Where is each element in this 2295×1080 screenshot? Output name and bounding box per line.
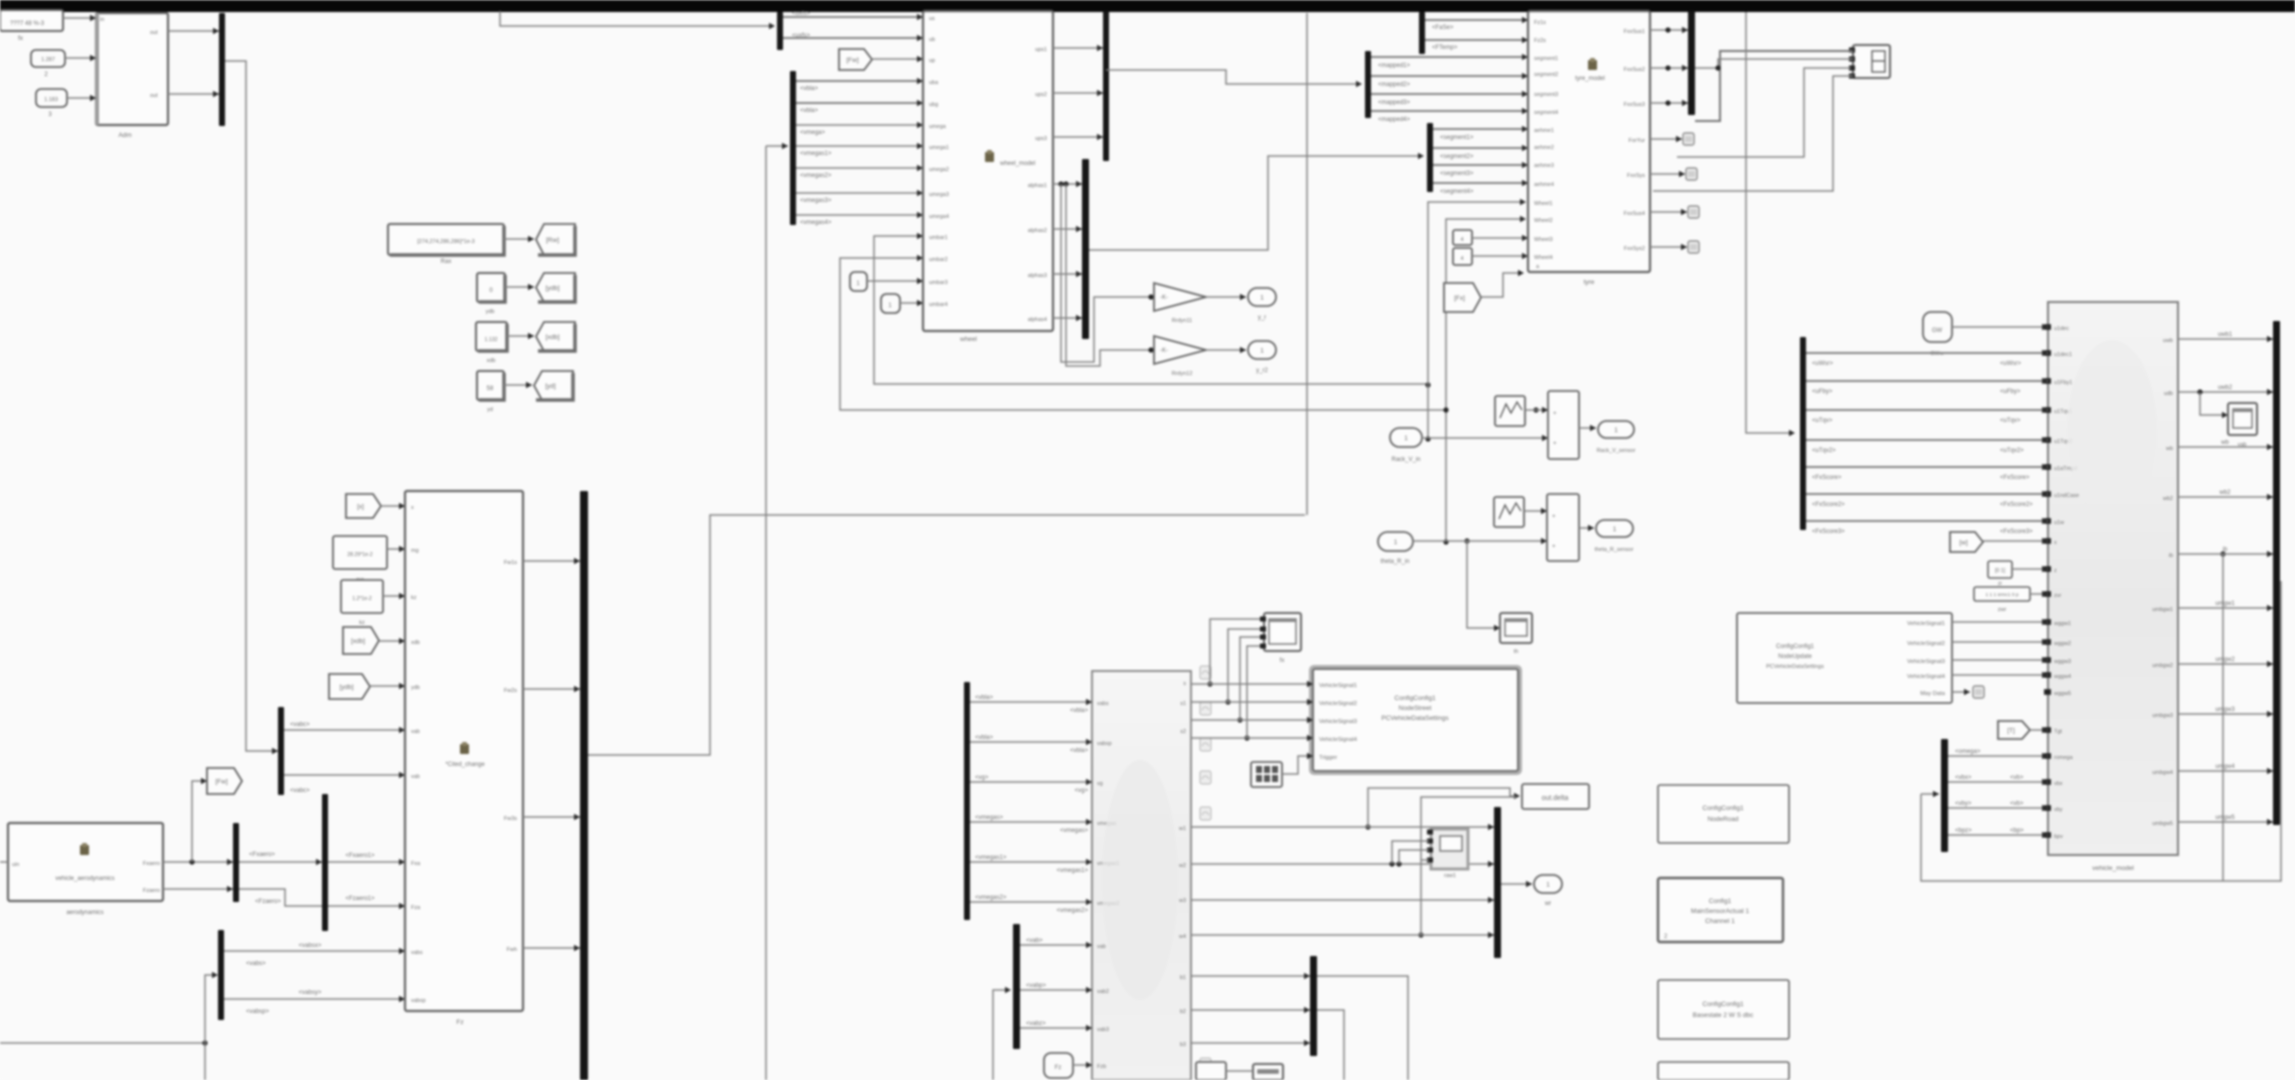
svg-text:umbgw1: umbgw1: [2152, 607, 2173, 613]
svg-text:MainSensorActual 1: MainSensorActual 1: [1691, 908, 1750, 915]
svg-text:umgw5: umgw5: [2215, 815, 2235, 821]
svg-text:<segment4>: <segment4>: [1440, 189, 1474, 195]
svg-text:Fz2s: Fz2s: [1534, 38, 1546, 44]
svg-text:[Fx]: [Fx]: [1454, 295, 1465, 302]
svg-text:Fzaero: Fzaero: [143, 888, 160, 894]
svg-text:tyre: tyre: [1584, 279, 1595, 286]
svg-text:<mapped2>: <mapped2>: [1378, 82, 1411, 88]
svg-text:w3: w3: [1178, 898, 1186, 904]
svg-text:Rax: Rax: [441, 259, 452, 265]
svg-text:vby: vby: [2054, 807, 2063, 813]
svg-text:x: x: [411, 505, 414, 511]
svg-text:romega: romega: [2054, 755, 2074, 761]
svg-text:s2: s2: [1180, 729, 1186, 735]
svg-text:wb2: wb2: [2162, 496, 2173, 502]
svg-text:Fza: Fza: [411, 905, 421, 911]
svg-text:wb: wb: [2220, 440, 2229, 446]
svg-text:ydb: ydb: [486, 309, 495, 315]
svg-text:<vmegas2>: <vmegas2>: [1057, 908, 1089, 914]
svg-text:wheel: wheel: [959, 336, 978, 343]
svg-text:umbar1: umbar1: [929, 235, 948, 241]
svg-text:vabsp: vabsp: [1097, 741, 1112, 747]
svg-text:<FxScore2>: <FxScore2>: [1812, 502, 1845, 508]
svg-text:<vg>: <vg>: [975, 775, 989, 781]
svg-text:VehicleSignal2: VehicleSignal2: [1319, 701, 1357, 707]
svg-text:vbx: vbx: [2054, 781, 2063, 787]
svg-text:Fz: Fz: [1055, 1065, 1062, 1071]
svg-text:<FxScore3>: <FxScore3>: [1812, 529, 1845, 535]
svg-text:<uWsr>: <uWsr>: [1812, 361, 1834, 367]
svg-text:w2: w2: [1178, 863, 1186, 869]
svg-text:umbar2: umbar2: [929, 257, 948, 263]
svg-text:<vbx>: <vbx>: [1955, 775, 1972, 781]
svg-text:vab: vab: [411, 729, 420, 735]
svg-text:[274,274,286,286]*1e-3: [274,274,286,286]*1e-3: [417, 239, 475, 245]
svg-text:VehicleSignal1: VehicleSignal1: [1319, 683, 1357, 689]
svg-text:<uTqv>: <uTqv>: [2000, 418, 2021, 424]
svg-text:<vmegas>: <vmegas>: [1060, 828, 1089, 834]
svg-text:[Fw]: [Fw]: [215, 779, 227, 786]
svg-text:[0 1]: [0 1]: [1995, 568, 2006, 574]
svg-text:Rack_V_in: Rack_V_in: [1391, 457, 1420, 463]
svg-text:aehme2: aehme2: [1534, 145, 1554, 151]
svg-text:Wheel4: Wheel4: [1534, 255, 1553, 261]
svg-text:umbar4: umbar4: [929, 302, 948, 308]
svg-text:Wheel2: Wheel2: [1534, 218, 1553, 224]
svg-text:VehicleSignal3: VehicleSignal3: [1907, 659, 1945, 665]
svg-text:<vmegas2>: <vmegas2>: [800, 173, 832, 179]
svg-text:segment2: segment2: [1534, 72, 1558, 78]
svg-text:theta_R_sensor: theta_R_sensor: [1595, 547, 1634, 553]
svg-text:w1: w1: [1178, 826, 1186, 832]
svg-text:PCVehicleDataSettings: PCVehicleDataSettings: [1381, 715, 1449, 722]
svg-text:vehicle_model: vehicle_model: [2092, 865, 2134, 872]
svg-text:Basestate 2 W S dbc: Basestate 2 W S dbc: [1693, 1012, 1754, 1019]
svg-text:wheel_model: wheel_model: [999, 161, 1035, 167]
svg-text:wr: wr: [1544, 901, 1551, 907]
svg-text:z: z: [2054, 568, 2057, 574]
svg-text:<bpz>: <bpz>: [1955, 828, 1972, 834]
svg-text:us: us: [929, 16, 935, 22]
svg-text:1: 1: [1394, 539, 1398, 546]
svg-text:udb: udb: [2164, 391, 2173, 397]
svg-text:VehicleSignal4: VehicleSignal4: [1319, 737, 1358, 743]
svg-text:FxxSys: FxxSys: [1627, 173, 1645, 179]
svg-text:ConfigConfig1: ConfigConfig1: [1394, 695, 1436, 702]
svg-text:GW: GW: [1932, 328, 1943, 334]
svg-text:raw1: raw1: [1444, 873, 1456, 879]
svg-text:<Fxaero1>: <Fxaero1>: [345, 853, 375, 859]
svg-text:Fz1s: Fz1s: [1534, 20, 1546, 26]
svg-text:out: out: [150, 30, 158, 36]
svg-text:<vabz>: <vabz>: [1026, 1021, 1046, 1027]
svg-text:<vmegas1>: <vmegas1>: [975, 855, 1007, 861]
svg-text:vab: vab: [2238, 442, 2247, 448]
svg-text:segment3: segment3: [1534, 92, 1558, 98]
svg-text:alphas4: alphas4: [1028, 317, 1047, 323]
svg-text:<vabsx>: <vabsx>: [299, 943, 322, 949]
svg-text:<vabc>: <vabc>: [290, 722, 310, 728]
svg-text:<vb>: <vb>: [2010, 775, 2024, 781]
svg-text:Config1: Config1: [1709, 898, 1732, 905]
svg-text:Wheel3: Wheel3: [1534, 237, 1553, 243]
svg-text:theta_R_in: theta_R_in: [1380, 559, 1409, 565]
svg-text:[Rw]: [Rw]: [546, 237, 559, 244]
svg-text:<vabs>: <vabs>: [246, 961, 266, 967]
svg-text:4: 4: [1460, 237, 1463, 243]
svg-text:1: 1: [1546, 882, 1550, 889]
svg-text:wggw1: wggw1: [2053, 621, 2071, 627]
svg-text:1: 1: [1260, 348, 1264, 355]
svg-text:4: 4: [1460, 256, 1463, 262]
svg-text:Rrdyn11: Rrdyn11: [1172, 318, 1192, 324]
svg-text:VehicleSignal1: VehicleSignal1: [1907, 621, 1945, 627]
svg-text:<bp>: <bp>: [2010, 828, 2024, 834]
svg-text:zvr: zvr: [2054, 593, 2062, 599]
svg-text:bpv: bpv: [2054, 834, 2063, 840]
svg-text:ib: ib: [2169, 553, 2173, 559]
svg-text:Fw1s: Fw1s: [504, 560, 517, 566]
svg-text:<uTqv2>: <uTqv2>: [2000, 448, 2024, 454]
svg-text:uin: uin: [12, 862, 19, 868]
svg-text:u1w: u1w: [2054, 520, 2064, 526]
svg-text:FxxSus3: FxxSus3: [1624, 102, 1645, 108]
svg-text:y_r: y_r: [1258, 315, 1266, 321]
svg-text:<vg>: <vg>: [1075, 788, 1089, 794]
svg-text:b2: b2: [1180, 1009, 1186, 1015]
svg-text:ib: ib: [2223, 547, 2228, 553]
svg-text:Fxaero: Fxaero: [143, 861, 160, 867]
svg-text:<vab>: <vab>: [1026, 938, 1043, 944]
svg-text:28.29*1e-2: 28.29*1e-2: [347, 552, 372, 558]
svg-text:-K-: -K-: [1160, 295, 1168, 301]
svg-text:b3: b3: [1180, 1042, 1186, 1048]
svg-text:<uWsr>: <uWsr>: [2000, 361, 2022, 367]
svg-text:Adm: Adm: [118, 132, 131, 139]
svg-text:[ydb]: [ydb]: [339, 684, 353, 691]
svg-text:Trigger: Trigger: [1319, 755, 1337, 761]
svg-text:Rack_V_sensor: Rack_V_sensor: [1597, 448, 1636, 454]
svg-text:<vmega>: <vmega>: [800, 130, 826, 136]
svg-text:uwb: uwb: [2163, 338, 2173, 344]
svg-text:umbgw4: umbgw4: [2152, 770, 2173, 776]
svg-text:uwb2: uwb2: [2218, 385, 2233, 391]
svg-text:aehme1: aehme1: [1534, 128, 1554, 134]
svg-text:[xdb]: [xdb]: [351, 638, 365, 645]
svg-text:xdb: xdb: [411, 640, 420, 646]
svg-text:<vbla>: <vbla>: [975, 735, 994, 741]
svg-text:VehicleSignal2: VehicleSignal2: [1907, 641, 1945, 647]
svg-text:<vabsy>: <vabsy>: [299, 990, 322, 996]
svg-text:umbgw2: umbgw2: [2152, 663, 2173, 669]
svg-text:umbgw5: umbgw5: [2152, 821, 2173, 827]
svg-text:Fw3s: Fw3s: [504, 816, 517, 822]
svg-text:1 1 1 srmc1 0 p: 1 1 1 srmc1 0 p: [1985, 592, 2018, 598]
svg-text:kz: kz: [411, 595, 417, 601]
svg-text:fx: fx: [18, 35, 24, 42]
svg-text:segment4: segment4: [1534, 110, 1558, 116]
svg-text:<segment2>: <segment2>: [1440, 154, 1474, 160]
svg-text:wggw3: wggw3: [2053, 659, 2071, 665]
svg-text:NodeUpdate: NodeUpdate: [1778, 654, 1812, 660]
svg-text:vab2: vab2: [1097, 989, 1109, 995]
svg-text:ups3: ups3: [1035, 136, 1047, 142]
svg-text:[xdb]: [xdb]: [545, 334, 559, 341]
svg-text:alphas2: alphas2: [1028, 228, 1047, 234]
svg-text:1: 1: [1260, 295, 1264, 302]
svg-text:1.183: 1.183: [44, 97, 58, 103]
svg-text:umega: umega: [929, 124, 947, 130]
svg-text:vabs: vabs: [1097, 701, 1109, 707]
svg-text:<FaSe>: <FaSe>: [1432, 25, 1454, 31]
svg-text:PCVehicleDataSettings: PCVehicleDataSettings: [1766, 664, 1824, 670]
svg-text:<vmegas>: <vmegas>: [975, 815, 1004, 821]
svg-text:<vabsp>: <vabsp>: [246, 1009, 270, 1015]
svg-text:1: 1: [1614, 427, 1618, 434]
svg-text:wb2: wb2: [2218, 490, 2231, 496]
svg-text:wggw2: wggw2: [2053, 641, 2071, 647]
svg-text:yd: yd: [487, 407, 493, 413]
svg-text:u1ndCase: u1ndCase: [2054, 493, 2079, 499]
svg-text:1.132: 1.132: [485, 337, 498, 343]
svg-text:Rrdyn12: Rrdyn12: [1172, 371, 1193, 377]
svg-text:*Cited_change: *Cited_change: [445, 762, 485, 768]
svg-text:FxxSus2: FxxSus2: [1624, 67, 1645, 73]
svg-text:1.287: 1.287: [41, 57, 55, 63]
svg-text:umega3: umega3: [929, 192, 949, 198]
svg-text:ub: ub: [929, 37, 935, 43]
svg-text:<FxScore>: <FxScore>: [1812, 475, 1842, 481]
svg-text:<vmegas1>: <vmegas1>: [800, 151, 832, 157]
svg-text:[yd]: [yd]: [545, 383, 556, 390]
svg-text:<FxScore>: <FxScore>: [2000, 475, 2030, 481]
svg-text:<segment3>: <segment3>: [1440, 171, 1474, 177]
svg-text:u1dec: u1dec: [2054, 326, 2069, 332]
svg-text:umgw2: umgw2: [2215, 657, 2235, 663]
svg-text:<vbla>: <vbla>: [1070, 748, 1089, 754]
svg-text:s: s: [1183, 681, 1186, 687]
svg-text:FxxSys2: FxxSys2: [1624, 246, 1645, 252]
svg-text:Fw2s: Fw2s: [504, 688, 517, 694]
svg-text:vehicle_aerodynamics: vehicle_aerodynamics: [55, 876, 114, 882]
svg-text:Fwh: Fwh: [507, 947, 517, 953]
svg-text:vab: vab: [1097, 944, 1106, 950]
svg-text:th: th: [1514, 649, 1519, 655]
svg-text:xdb: xdb: [487, 358, 496, 364]
svg-text:Fz: Fz: [456, 1019, 463, 1026]
svg-text:<mapped1>: <mapped1>: [1378, 63, 1411, 69]
svg-text:<uFby>: <uFby>: [1812, 389, 1833, 395]
svg-text:+: +: [1553, 411, 1557, 417]
svg-text:ubg: ubg: [929, 102, 938, 108]
svg-text:1: 1: [1613, 526, 1617, 533]
svg-text:x: x: [2054, 540, 2057, 546]
svg-text:May Data: May Data: [1920, 691, 1946, 697]
svg-text:mg: mg: [411, 548, 419, 554]
svg-text:umega4: umega4: [929, 214, 949, 220]
svg-text:wggw5: wggw5: [2053, 691, 2071, 697]
svg-text:umgw3: umgw3: [2215, 707, 2235, 713]
svg-text:+: +: [1552, 514, 1556, 520]
svg-text:FxxSus1: FxxSus1: [1624, 29, 1645, 35]
svg-text:[x]: [x]: [357, 504, 364, 511]
svg-text:1.2*1e-2: 1.2*1e-2: [352, 596, 372, 602]
svg-text:58: 58: [487, 386, 494, 392]
svg-text:ConfigConfig1: ConfigConfig1: [1702, 1001, 1744, 1008]
svg-text:???7 48 %-3: ???7 48 %-3: [10, 21, 45, 27]
svg-text:vab3: vab3: [1097, 1027, 1109, 1033]
svg-text:ups1: ups1: [1035, 47, 1047, 53]
svg-text:<Fxaero>: <Fxaero>: [249, 852, 275, 858]
svg-text:NodeStreet: NodeStreet: [1399, 705, 1432, 712]
svg-text:zwr: zwr: [1998, 607, 2007, 613]
svg-text:umbgw3: umbgw3: [2152, 713, 2173, 719]
svg-text:<vmegas4>: <vmegas4>: [800, 220, 832, 226]
svg-text:Channel 1: Channel 1: [1705, 918, 1735, 925]
svg-text:out: out: [150, 93, 158, 99]
svg-text:zr: zr: [1998, 581, 2003, 587]
svg-text:wb: wb: [2165, 446, 2173, 452]
svg-text:ForYur: ForYur: [1628, 138, 1645, 144]
svg-text:vab: vab: [411, 774, 420, 780]
svg-text:<vbla>: <vbla>: [800, 108, 819, 114]
svg-text:ConfigConfig1: ConfigConfig1: [1776, 644, 1815, 650]
svg-text:<vabp>: <vabp>: [1026, 983, 1047, 989]
svg-text:<vmegas2>: <vmegas2>: [975, 895, 1007, 901]
svg-text:umgw4: umgw4: [2215, 764, 2235, 770]
svg-text:VehicleSignal4: VehicleSignal4: [1907, 674, 1946, 680]
svg-text:<mapped3>: <mapped3>: [1378, 100, 1411, 106]
svg-text:VehicleSignal3: VehicleSignal3: [1319, 719, 1357, 725]
svg-text:<uFby>: <uFby>: [2000, 389, 2021, 395]
svg-text:+: +: [1553, 441, 1557, 447]
svg-text:uba: uba: [929, 80, 939, 86]
svg-text:+: +: [1552, 544, 1556, 550]
svg-text:u1Fby1: u1Fby1: [2054, 380, 2072, 386]
svg-text:Wheel1: Wheel1: [1534, 201, 1553, 207]
svg-text:kz: kz: [359, 620, 365, 626]
svg-text:1: 1: [1404, 435, 1408, 442]
svg-text:<Fzaero1>: <Fzaero1>: [345, 896, 375, 902]
svg-text:<vabc>: <vabc>: [290, 788, 310, 794]
svg-text:<vbla>: <vbla>: [800, 86, 819, 92]
svg-text:in: in: [100, 17, 104, 23]
svg-text:<vb>: <vb>: [2010, 801, 2024, 807]
svg-text:<vbla>: <vbla>: [975, 695, 994, 701]
svg-text:<vmegas1>: <vmegas1>: [1057, 868, 1089, 874]
svg-text:vabsp: vabsp: [411, 998, 426, 1004]
svg-text:y_r2: y_r2: [1256, 368, 1268, 374]
svg-text:[w]: [w]: [1959, 540, 1968, 547]
svg-text:[Fw]: [Fw]: [846, 57, 858, 64]
svg-text:umega1: umega1: [929, 145, 949, 151]
svg-text:umega2: umega2: [929, 167, 949, 173]
svg-text:Tgt: Tgt: [2054, 729, 2062, 735]
svg-text:ups2: ups2: [1035, 92, 1047, 98]
svg-text:vabs: vabs: [411, 950, 423, 956]
svg-text:<Fzaero>: <Fzaero>: [255, 899, 281, 905]
svg-text:alphas1: alphas1: [1028, 183, 1047, 189]
svg-text:segment1: segment1: [1534, 56, 1558, 62]
svg-text:ConfigConfig1: ConfigConfig1: [1702, 805, 1744, 812]
svg-text:umgw1: umgw1: [2215, 601, 2235, 607]
svg-text:<FTemp>: <FTemp>: [1432, 45, 1458, 51]
svg-text:<omega>: <omega>: [1955, 749, 1981, 755]
svg-text:out.delta: out.delta: [1542, 795, 1569, 802]
svg-text:[ydb]: [ydb]: [545, 285, 559, 292]
svg-text:alphas3: alphas3: [1028, 273, 1047, 279]
svg-text:<FxScore2>: <FxScore2>: [2000, 502, 2033, 508]
svg-text:NodeRoad: NodeRoad: [1707, 816, 1738, 823]
svg-text:s1: s1: [1180, 701, 1186, 707]
svg-text:vg: vg: [1097, 781, 1103, 787]
svg-text:<FxScore3>: <FxScore3>: [2000, 529, 2033, 535]
svg-text:ydb: ydb: [411, 685, 420, 691]
svg-text:u1dec1: u1dec1: [2054, 352, 2072, 358]
svg-text:[T]: [T]: [2007, 728, 2015, 735]
svg-text:FxxSus4: FxxSus4: [1624, 211, 1645, 217]
svg-text:fx: fx: [1280, 658, 1285, 664]
svg-text:uwb1: uwb1: [2218, 332, 2233, 338]
svg-text:b1: b1: [1180, 975, 1186, 981]
svg-text:aehme3: aehme3: [1534, 163, 1554, 169]
svg-text:up: up: [929, 58, 935, 64]
svg-text:aehme4: aehme4: [1534, 182, 1554, 188]
svg-text:Fxa: Fxa: [411, 861, 421, 867]
svg-text:tyre_model: tyre_model: [1575, 76, 1605, 82]
svg-text:-K-: -K-: [1160, 348, 1168, 354]
svg-text:<segment1>: <segment1>: [1440, 135, 1474, 141]
svg-text:umbar3: umbar3: [929, 280, 948, 286]
svg-text:<uTqv>: <uTqv>: [1812, 418, 1833, 424]
svg-text:w4: w4: [1178, 934, 1186, 940]
svg-text:aerodynamics: aerodynamics: [66, 910, 103, 916]
svg-text:<vbla>: <vbla>: [1070, 708, 1089, 714]
svg-text:Fzb: Fzb: [1097, 1064, 1106, 1070]
svg-text:<vmegas3>: <vmegas3>: [800, 198, 832, 204]
svg-text:wggw4: wggw4: [2053, 674, 2071, 680]
svg-text:<mapped4>: <mapped4>: [1378, 117, 1411, 123]
svg-text:<uTqv2>: <uTqv2>: [1812, 448, 1836, 454]
svg-text:<vby>: <vby>: [1955, 801, 1972, 807]
